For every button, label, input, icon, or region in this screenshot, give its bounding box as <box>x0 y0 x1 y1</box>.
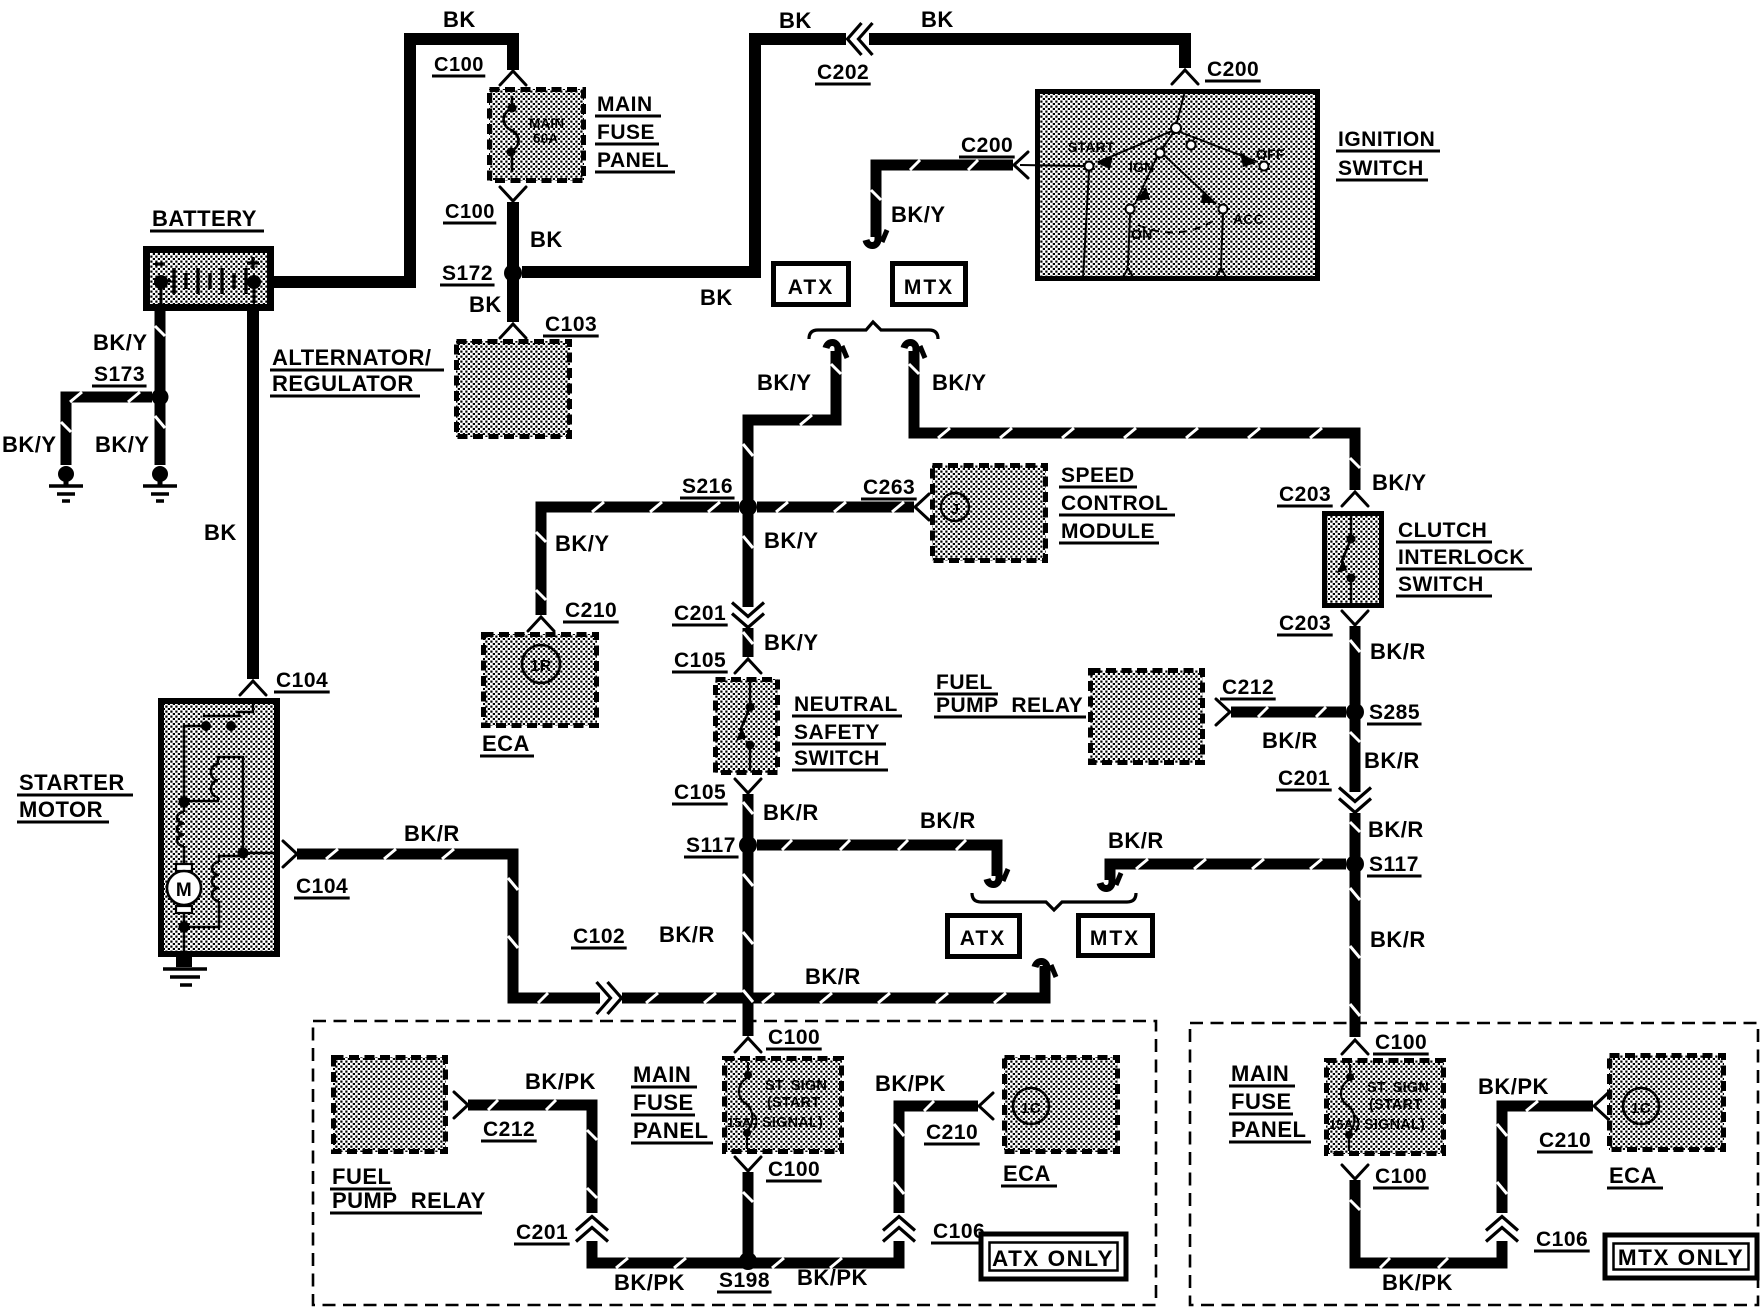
label BK starter wire <box>204 520 237 545</box>
junction S198 <box>717 1252 772 1292</box>
svg-text:1R: 1R <box>530 658 551 675</box>
svg-text:PANEL: PANEL <box>1231 1117 1306 1142</box>
fuse ST. SIGN (START SIGNAL) 15A right <box>1326 1060 1444 1154</box>
label BK/R below C212 wire <box>1262 728 1318 753</box>
connector C203 top <box>1277 483 1368 506</box>
svg-text:C106: C106 <box>1536 1228 1588 1251</box>
wire C100 to C106 right (BK/PK) <box>1350 1180 1502 1268</box>
fuse panel MAIN 60A (main fuse panel) <box>489 89 584 181</box>
svg-text:PUMP RELAY: PUMP RELAY <box>332 1188 486 1213</box>
svg-text:BK: BK <box>443 7 476 32</box>
label BK/R right of C102 <box>659 922 715 947</box>
svg-text:MTX: MTX <box>1090 927 1140 950</box>
svg-text:C104: C104 <box>296 875 348 898</box>
svg-text:BK/Y: BK/Y <box>93 330 148 355</box>
svg-text:BK/R: BK/R <box>1364 748 1420 773</box>
label BK/R above S117 right <box>1364 748 1420 773</box>
svg-text:FUSE: FUSE <box>597 121 655 144</box>
svg-text:C201: C201 <box>674 602 726 625</box>
junction S172 <box>440 262 522 285</box>
section box MTX only <box>1190 1023 1758 1305</box>
label BK/Y left branch <box>757 370 812 395</box>
wire S216 down to C201 (BK/Y) <box>743 512 753 607</box>
wire C212 to C201 lower (BK/PK) <box>468 1100 597 1213</box>
svg-text:BK/PK: BK/PK <box>797 1265 868 1290</box>
svg-text:BK/PK: BK/PK <box>525 1069 596 1094</box>
connector C106 lower <box>883 1217 987 1244</box>
label BK/R right leg <box>1370 927 1426 952</box>
svg-text:ECA: ECA <box>482 731 530 756</box>
svg-text:PANEL: PANEL <box>633 1118 708 1143</box>
battery <box>147 250 271 308</box>
ground S173 <box>143 466 177 501</box>
clutch interlock switch <box>1325 514 1382 606</box>
svg-text:BK: BK <box>530 227 563 252</box>
svg-text:C100: C100 <box>768 1026 820 1049</box>
section box ATX only <box>313 1021 1156 1305</box>
label BK/Y below S173 <box>95 432 150 457</box>
svg-text:C203: C203 <box>1279 483 1331 506</box>
brace under ATX/MTX upper <box>809 322 938 339</box>
wire S172 to ignition switch riser (BK) <box>522 39 846 272</box>
svg-text:BK: BK <box>779 8 812 33</box>
brace above ATX/MTX lower <box>972 893 1136 910</box>
label IGNITION SWITCH <box>1336 128 1440 180</box>
hook ATX branch upper <box>826 342 847 359</box>
ground left <box>49 466 83 501</box>
MTX ONLY box <box>1605 1235 1757 1278</box>
wire C100 to S172 (BK) <box>507 202 519 268</box>
connector C200 left <box>959 134 1028 178</box>
svg-text:SPEED: SPEED <box>1061 464 1135 487</box>
label BK top middle <box>779 8 812 33</box>
connector C210 lower-right <box>1537 1093 1608 1152</box>
wire S117 left down to C100 (BK/R) <box>743 850 753 1036</box>
svg-text:BK/R: BK/R <box>805 964 861 989</box>
svg-text:BK/Y: BK/Y <box>932 370 987 395</box>
svg-text:BK/Y: BK/Y <box>2 432 57 457</box>
wire S198 to C106 (BK/PK) <box>753 1241 899 1268</box>
svg-text:C203: C203 <box>1279 612 1331 635</box>
wire S117 right down to C100 (BK/R) <box>1350 869 1360 1037</box>
svg-text:ACC: ACC <box>1233 211 1264 227</box>
svg-text:SIGNAL): SIGNAL) <box>1364 1117 1425 1133</box>
hook MTX branch lower <box>1100 872 1121 889</box>
svg-text:(START: (START <box>767 1095 820 1111</box>
svg-text:C102: C102 <box>573 925 625 948</box>
junction S216 <box>680 475 757 516</box>
label MAIN FUSE PANEL lower-right <box>1229 1061 1311 1142</box>
ECA box lower-right <box>1609 1055 1724 1150</box>
connector C100 below fuse panel <box>443 187 526 223</box>
svg-text:ECA: ECA <box>1609 1163 1657 1188</box>
connector C104 top <box>240 669 330 695</box>
wire S117 right to MTX hook (BK/R) <box>1110 859 1346 880</box>
svg-text:ATX: ATX <box>788 276 834 299</box>
label BK/R mtx branch <box>1108 828 1164 853</box>
wire S173 branch left (BK/Y) <box>61 392 152 465</box>
wire C105 to S117 (BK/R) <box>743 794 753 840</box>
svg-text:C105: C105 <box>674 781 726 804</box>
svg-text:SWITCH: SWITCH <box>1398 573 1484 596</box>
svg-text:MTX: MTX <box>904 276 954 299</box>
label BATTERY <box>150 206 264 231</box>
label BK/PK relay feed <box>525 1069 596 1094</box>
svg-text:S173: S173 <box>94 363 145 386</box>
svg-text:C201: C201 <box>516 1221 568 1244</box>
svg-text:MOTOR: MOTOR <box>19 797 103 822</box>
svg-text:C100: C100 <box>434 54 484 76</box>
svg-text:C104: C104 <box>276 669 328 692</box>
svg-text:BK/Y: BK/Y <box>764 630 819 655</box>
label BK/PK right of S198 <box>797 1265 868 1290</box>
svg-text:NEUTRAL: NEUTRAL <box>794 693 898 716</box>
svg-text:MAIN: MAIN <box>1231 1061 1289 1086</box>
svg-text:ON: ON <box>1131 226 1152 242</box>
label STARTER MOTOR <box>17 770 133 822</box>
wire C106 to C210 right (BK/PK) <box>1497 1101 1593 1213</box>
svg-text:REGULATOR: REGULATOR <box>272 371 414 396</box>
connector C200 top <box>1172 58 1261 84</box>
label MAIN FUSE PANEL lower-left <box>631 1062 713 1143</box>
svg-text:C263: C263 <box>863 476 915 499</box>
connector C212 lower <box>454 1092 537 1141</box>
svg-text:INTERLOCK: INTERLOCK <box>1398 546 1525 569</box>
connector C106 right <box>1486 1217 1590 1252</box>
wire C106 to C210 (BK/PK) <box>894 1101 978 1213</box>
label BK top right <box>921 7 954 32</box>
svg-text:SAFETY: SAFETY <box>794 721 880 744</box>
svg-text:STARTER: STARTER <box>19 770 125 795</box>
label BK/R below S285 <box>1368 817 1424 842</box>
hook ATX branch lower <box>987 868 1008 885</box>
svg-text:IGN: IGN <box>1129 159 1155 175</box>
svg-text:BK/PK: BK/PK <box>1478 1074 1549 1099</box>
svg-text:BK/PK: BK/PK <box>875 1071 946 1096</box>
label FUEL PUMP RELAY mid <box>934 671 1086 717</box>
svg-text:C210: C210 <box>1539 1129 1591 1152</box>
svg-text:MAIN: MAIN <box>597 93 653 116</box>
svg-text:FUSE: FUSE <box>1231 1089 1292 1114</box>
junction S117 right <box>1346 853 1422 876</box>
label BK/Y far left <box>2 432 57 457</box>
wire C201 to S198 (BK/PK) <box>592 1241 743 1268</box>
svg-text:C100: C100 <box>445 201 495 223</box>
svg-text:SWITCH: SWITCH <box>1338 157 1424 180</box>
wire MTX branch to C203 (BK/Y) <box>909 351 1360 490</box>
svg-text:M: M <box>176 880 192 901</box>
wire C104 to C102 (BK/R) <box>297 849 600 1003</box>
label BK below C100 <box>530 227 563 252</box>
svg-text:BK: BK <box>204 520 237 545</box>
svg-text:S172: S172 <box>442 262 493 285</box>
wire battery neg to S173 (BK/Y) <box>155 311 165 392</box>
connector C104 right <box>283 841 350 898</box>
ATX ONLY box <box>981 1234 1126 1279</box>
label ECA lower-right <box>1607 1163 1663 1188</box>
speed control module box <box>932 465 1046 561</box>
starter motor <box>161 701 277 954</box>
label BK/PK to ECA right <box>1478 1074 1549 1099</box>
ECA box lower-left <box>1004 1057 1118 1152</box>
wire C203 to S285 (BK/R) <box>1350 626 1360 707</box>
label BK left of ATX <box>700 285 733 310</box>
svg-text:C212: C212 <box>483 1118 535 1141</box>
svg-text:C103: C103 <box>545 313 597 336</box>
label BK battery top wire <box>443 7 476 32</box>
svg-text:C210: C210 <box>565 599 617 622</box>
svg-text:BK/R: BK/R <box>659 922 715 947</box>
label BK/Y below C201 <box>764 630 819 655</box>
MTX box upper <box>893 264 966 305</box>
connector C212 mid <box>1216 676 1276 725</box>
label SPEED CONTROL MODULE <box>1059 464 1175 543</box>
ATX box upper <box>774 264 849 305</box>
wire C102 to ATX hook lower (BK/R) <box>622 966 1045 1003</box>
junction S285 <box>1346 701 1422 724</box>
label BK/R starter feed <box>404 821 460 846</box>
label ECA lower-left <box>1001 1161 1057 1186</box>
svg-text:60A: 60A <box>533 131 558 146</box>
svg-text:C210: C210 <box>926 1121 978 1144</box>
label BK/PK left of S198 <box>614 1270 685 1295</box>
svg-text:BK/R: BK/R <box>404 821 460 846</box>
label BK/R above S117 <box>763 800 819 825</box>
label BK/PK to ECA <box>875 1071 946 1096</box>
fuel pump relay box lower <box>333 1057 446 1152</box>
connector C100 top <box>432 54 526 85</box>
alternator/regulator box <box>456 341 570 437</box>
wire ATX branch to S216 (BK/Y) <box>743 351 841 503</box>
label BK/Y at C203 <box>1372 470 1427 495</box>
connector C103 <box>500 313 599 338</box>
svg-text:J: J <box>951 501 960 518</box>
neutral safety switch <box>715 679 778 773</box>
svg-text:(START: (START <box>1369 1097 1422 1113</box>
label BK/Y right branch <box>932 370 987 395</box>
fuse ST. SIGN (START SIGNAL) 15A left <box>724 1058 842 1152</box>
svg-text:BK/R: BK/R <box>1368 817 1424 842</box>
svg-text:BK/Y: BK/Y <box>757 370 812 395</box>
label NEUTRAL SAFETY SWITCH <box>792 693 902 770</box>
ignition switch <box>1020 91 1318 279</box>
wire C100 to S198 (BK/PK) <box>743 1172 753 1258</box>
hook MTX branch upper <box>904 342 925 359</box>
wire C200 to hook (BK/Y) <box>871 160 1013 237</box>
svg-text:CONTROL: CONTROL <box>1061 492 1168 515</box>
wire battery negative to C104 (BK) <box>247 311 259 679</box>
svg-text:ATX: ATX <box>960 927 1006 950</box>
svg-text:BK/R: BK/R <box>920 808 976 833</box>
svg-text:15A: 15A <box>1329 1117 1354 1132</box>
connector C201 lower <box>514 1217 608 1245</box>
svg-text:ATX ONLY: ATX ONLY <box>992 1246 1114 1271</box>
connector C201 mid <box>672 602 764 628</box>
junction S173 <box>92 363 169 406</box>
svg-text:S198: S198 <box>719 1269 770 1292</box>
svg-text:1C: 1C <box>1631 1100 1651 1117</box>
label BK/R above bottom wire <box>805 964 861 989</box>
label BK/Y below S216 <box>764 528 819 553</box>
label BK/Y ignition feed <box>891 202 946 227</box>
svg-text:ALTERNATOR/: ALTERNATOR/ <box>272 345 432 370</box>
svg-text:FUEL: FUEL <box>936 671 993 694</box>
svg-text:1C: 1C <box>1021 1100 1041 1117</box>
wire battery positive to C100 (BK) <box>274 39 513 282</box>
svg-text:BK/R: BK/R <box>763 800 819 825</box>
junction S117 left <box>684 834 757 857</box>
label BK/Y above S173 <box>93 330 148 355</box>
svg-text:BK/R: BK/R <box>1370 639 1426 664</box>
connector C263 <box>861 476 929 520</box>
svg-text:ST. SIGN: ST. SIGN <box>765 1078 827 1094</box>
svg-text:ECA: ECA <box>1003 1161 1051 1186</box>
ATX box lower <box>948 916 1020 957</box>
svg-text:BK: BK <box>700 285 733 310</box>
svg-text:PUMP RELAY: PUMP RELAY <box>936 694 1083 717</box>
svg-text:C200: C200 <box>1207 58 1259 81</box>
hook below ATX/MTX lower <box>1035 961 1056 978</box>
svg-text:BK/R: BK/R <box>1108 828 1164 853</box>
svg-text:BK: BK <box>469 292 502 317</box>
svg-text:BK/PK: BK/PK <box>1382 1270 1453 1295</box>
svg-text:FUEL: FUEL <box>332 1164 391 1189</box>
svg-text:C201: C201 <box>1278 767 1330 790</box>
MTX box lower <box>1079 916 1153 956</box>
svg-text:MAIN: MAIN <box>529 116 564 131</box>
svg-text:C200: C200 <box>961 134 1013 157</box>
label BK above C103 <box>469 292 502 317</box>
svg-text:BK/PK: BK/PK <box>614 1270 685 1295</box>
svg-text:BATTERY: BATTERY <box>152 206 257 231</box>
label BK/Y to ECA <box>555 531 610 556</box>
svg-text:MTX ONLY: MTX ONLY <box>1618 1245 1744 1270</box>
svg-text:START: START <box>1068 139 1115 155</box>
svg-text:SWITCH: SWITCH <box>794 747 880 770</box>
svg-text:FUSE: FUSE <box>633 1090 694 1115</box>
label CLUTCH INTERLOCK SWITCH <box>1396 519 1532 596</box>
ground starter motor <box>163 955 207 985</box>
wire C202 to C200 (BK) <box>869 39 1185 68</box>
svg-text:C100: C100 <box>1375 1031 1427 1054</box>
svg-text:C100: C100 <box>1375 1165 1427 1188</box>
svg-text:C100: C100 <box>768 1158 820 1181</box>
wire C201 to C105 (BK/Y) <box>743 628 753 657</box>
svg-text:BK/Y: BK/Y <box>555 531 610 556</box>
label BK/PK bottom right <box>1382 1270 1453 1295</box>
wire S173 to ground (BK/Y) <box>155 402 165 465</box>
wire C201 to S117 right (BK/R) <box>1350 813 1360 859</box>
connector C210 mid <box>528 599 619 631</box>
svg-text:C202: C202 <box>817 61 869 84</box>
wire S285 to C212 (BK/R) <box>1231 707 1346 717</box>
svg-text:S117: S117 <box>686 834 736 857</box>
svg-text:MODULE: MODULE <box>1061 520 1155 543</box>
fuel pump relay box mid <box>1090 670 1203 763</box>
connector C105 bottom <box>672 779 761 804</box>
svg-text:PANEL: PANEL <box>597 149 669 172</box>
svg-text:BK/R: BK/R <box>1370 927 1426 952</box>
label ALTERNATOR/REGULATOR <box>270 345 444 396</box>
svg-text:BK: BK <box>921 7 954 32</box>
wire S216 to C210 (BK/Y) <box>536 502 739 615</box>
connector C100 bottom lower-right <box>1342 1165 1429 1188</box>
label MAIN FUSE PANEL top <box>595 93 675 172</box>
svg-text:C105: C105 <box>674 649 726 672</box>
wire S172 to C103 (BK) <box>507 278 519 322</box>
connector C105 top <box>672 649 761 673</box>
svg-text:ST. SIGN: ST. SIGN <box>1367 1080 1429 1096</box>
connector C203 bottom <box>1277 611 1368 635</box>
svg-text:SIGNAL): SIGNAL) <box>762 1115 823 1131</box>
connector C210 lower-left <box>924 1093 993 1144</box>
label FUEL PUMP RELAY lower <box>330 1164 486 1213</box>
connector C100 top lower-right <box>1342 1031 1429 1054</box>
svg-text:OFF: OFF <box>1256 146 1285 162</box>
svg-text:BK/Y: BK/Y <box>891 202 946 227</box>
connector C102 <box>571 925 627 1014</box>
svg-text:S117: S117 <box>1369 853 1419 876</box>
connector C201 right <box>1276 767 1371 813</box>
connector C202 <box>815 23 873 84</box>
svg-text:CLUTCH: CLUTCH <box>1398 519 1487 542</box>
connector C100 bottom lower-left <box>735 1157 822 1181</box>
svg-text:BK/Y: BK/Y <box>764 528 819 553</box>
hook below C200 wire <box>866 229 887 246</box>
svg-text:C106: C106 <box>933 1220 985 1243</box>
svg-text:S285: S285 <box>1369 701 1420 724</box>
label BK/R atx branch <box>920 808 976 833</box>
svg-text:MAIN: MAIN <box>633 1062 691 1087</box>
connector C100 top lower-left <box>735 1026 822 1052</box>
label ECA mid <box>480 731 534 756</box>
svg-text:BK/Y: BK/Y <box>1372 470 1427 495</box>
label BK/R below clutch <box>1370 639 1426 664</box>
svg-text:15A: 15A <box>727 1115 752 1130</box>
wire S117 to ATX hook (BK/R) <box>757 840 997 876</box>
ECA box mid <box>483 634 597 726</box>
svg-text:S216: S216 <box>682 475 733 498</box>
svg-text:C212: C212 <box>1222 676 1274 699</box>
svg-text:IGNITION: IGNITION <box>1338 128 1435 151</box>
svg-text:BK/R: BK/R <box>1262 728 1318 753</box>
wire S285 to C201 (BK/R) <box>1350 717 1360 792</box>
svg-text:BK/Y: BK/Y <box>95 432 150 457</box>
wire S216 to C263 (BK/Y) <box>757 502 914 512</box>
